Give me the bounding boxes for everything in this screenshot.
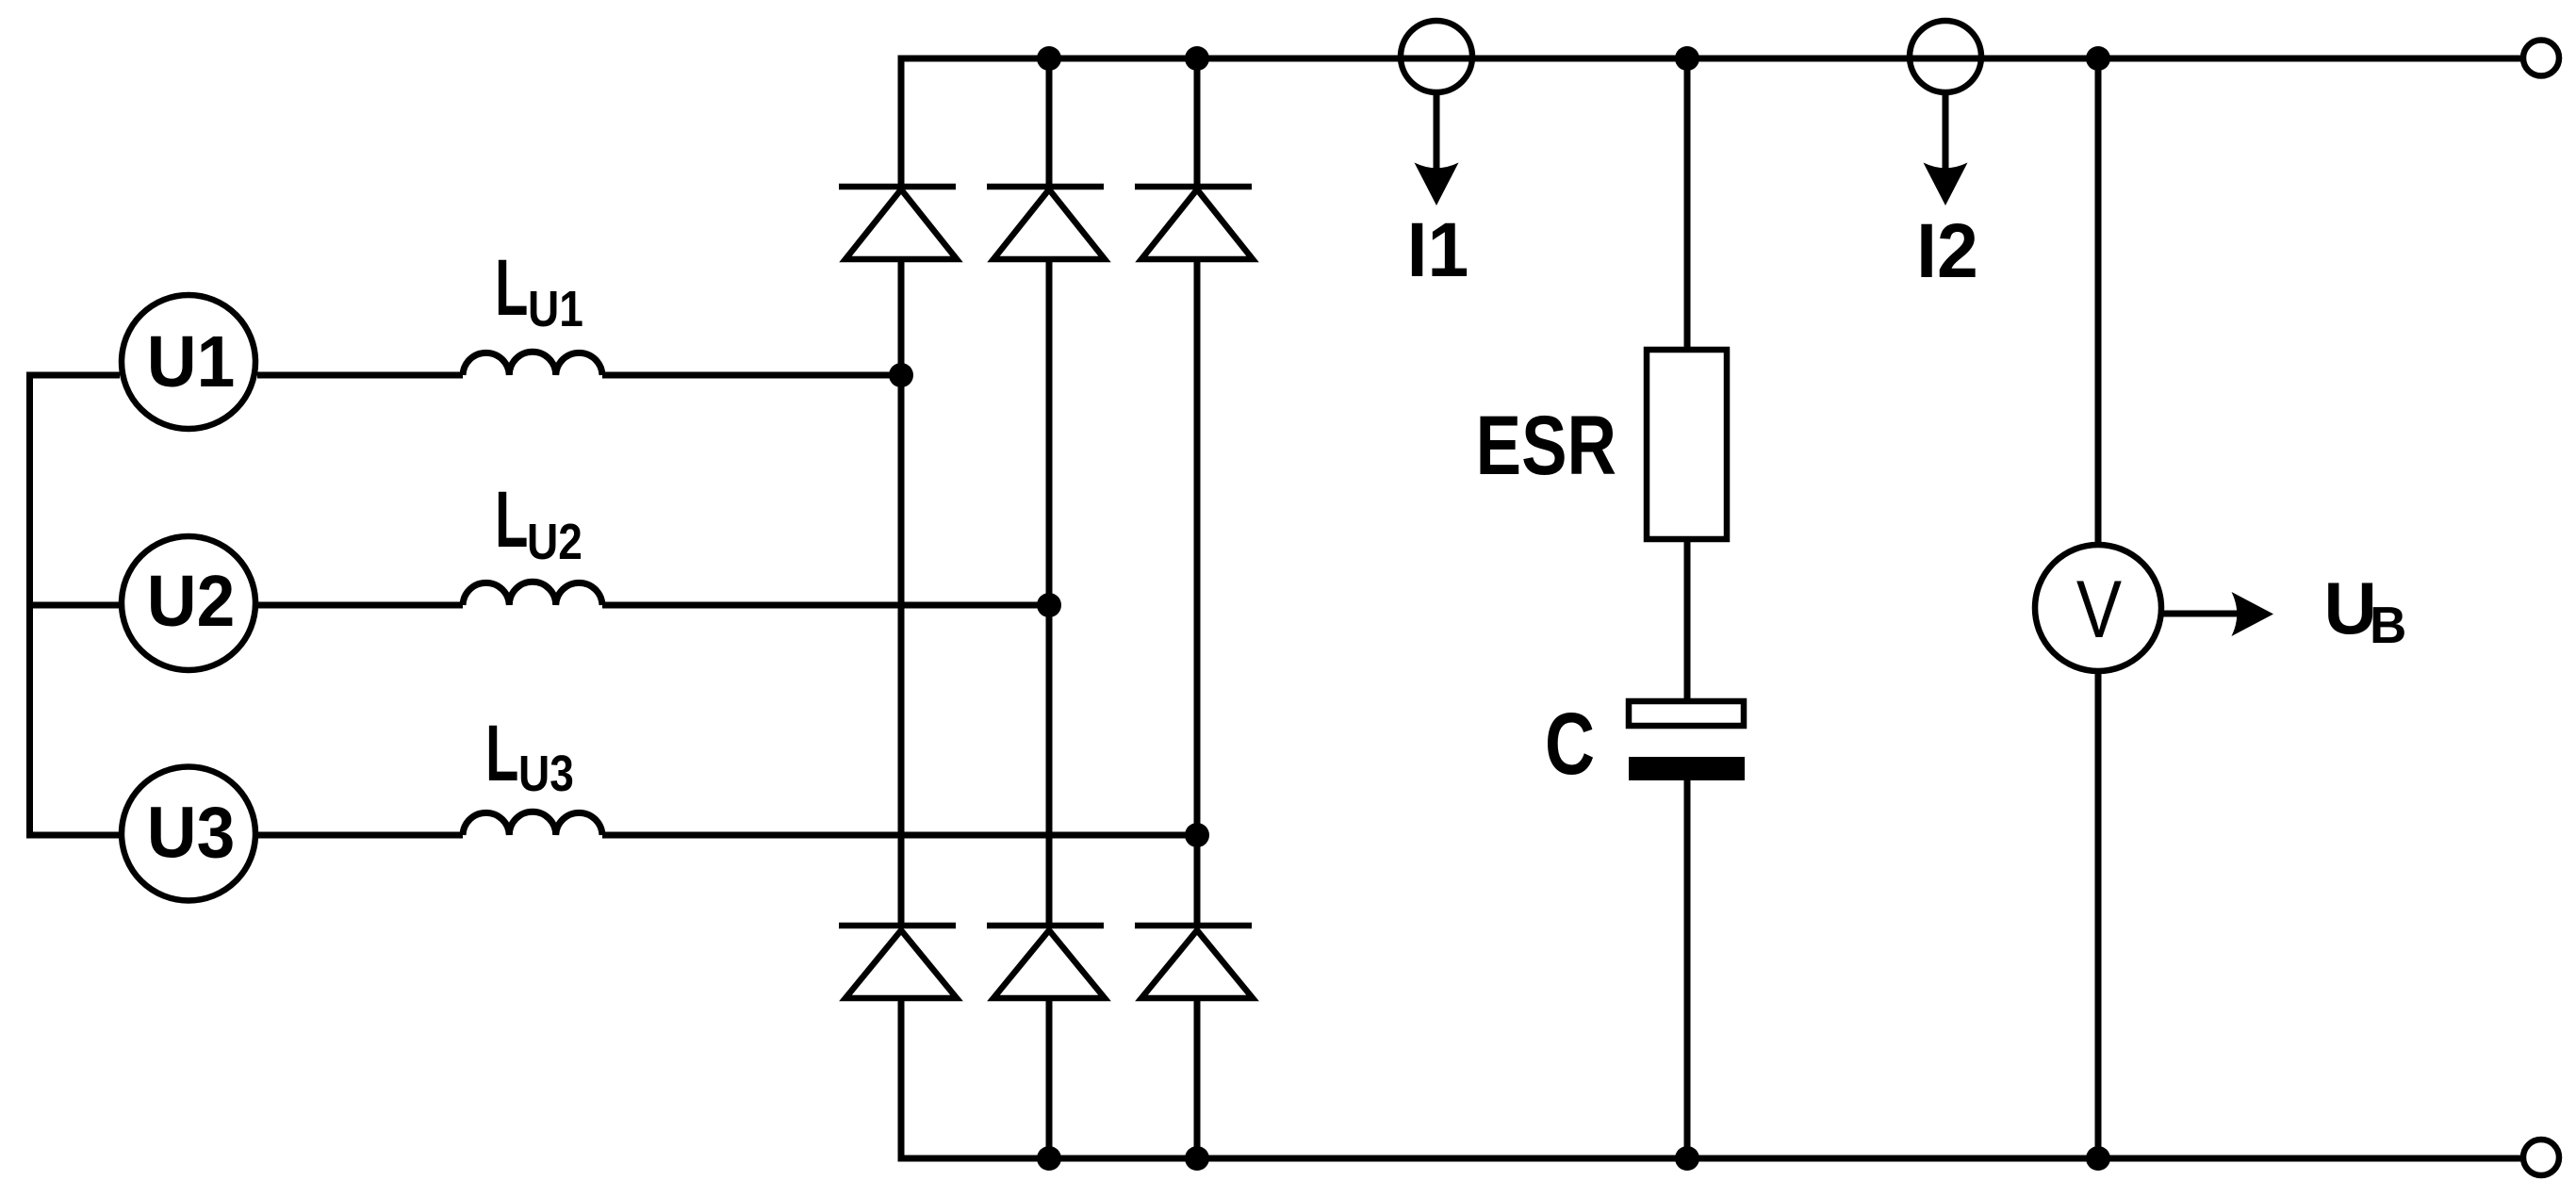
- arrow U_B: [2161, 592, 2273, 636]
- svg-text:V: V: [2076, 564, 2122, 654]
- svg-text:B: B: [2370, 596, 2406, 654]
- svg-text:L: L: [495, 477, 528, 565]
- svg-text:U1: U1: [528, 281, 583, 337]
- wire top bus: [901, 56, 2520, 62]
- diode D6 bottom: [1135, 926, 1253, 998]
- inductor L_U1: [463, 352, 602, 375]
- junction dot top col2: [1037, 46, 1061, 71]
- wire bridge column 2: [1046, 58, 1053, 1158]
- svg-text:U2: U2: [527, 514, 582, 570]
- svg-text:U3: U3: [147, 792, 235, 873]
- wire V branch top: [2095, 58, 2102, 545]
- ammeter I1 circle: [1401, 21, 1472, 92]
- junction dot U2 node: [1037, 593, 1061, 617]
- terminal bottom right: [2523, 1140, 2559, 1175]
- ammeter I2 circle: [1910, 21, 1981, 92]
- wire bridge column 3: [1194, 58, 1201, 1158]
- junction dot bottom col3: [1185, 1146, 1209, 1171]
- wire V branch bottom: [2095, 671, 2102, 1158]
- junction dot U3 node: [1185, 823, 1209, 847]
- diode D3 top: [1135, 187, 1253, 259]
- voltmeter V: [2035, 545, 2161, 671]
- inductor L_U3: [463, 812, 602, 835]
- source U2: [122, 536, 255, 670]
- inductor L_U2: [463, 582, 602, 605]
- source U3: [122, 767, 255, 901]
- wire ESR to capacitor: [1684, 539, 1691, 701]
- svg-text:I2: I2: [1916, 208, 1978, 295]
- svg-text:L: L: [495, 245, 528, 333]
- junction dot U1 node: [889, 363, 913, 387]
- svg-text:ESR: ESR: [1476, 399, 1616, 493]
- svg-text:L: L: [485, 711, 518, 798]
- wire bottom bus: [901, 1156, 2520, 1162]
- wire ESR branch top: [1684, 58, 1691, 350]
- svg-text:U1: U1: [147, 320, 235, 402]
- svg-text:U3: U3: [518, 746, 574, 802]
- wire phase U3 right: [258, 832, 463, 839]
- diode D4 bottom: [839, 926, 957, 998]
- svg-text:I1: I1: [1407, 207, 1469, 294]
- junction dot bottom col2: [1037, 1146, 1061, 1171]
- ammeter I1 arrow: [1415, 92, 1459, 205]
- wire U1 to bridge: [602, 372, 901, 379]
- junction dot top V: [2086, 46, 2110, 71]
- wire phase U1 right: [257, 372, 463, 379]
- ammeter I2 arrow: [1924, 92, 1968, 205]
- resistor ESR: [1647, 350, 1727, 539]
- wire phase U2 right: [258, 602, 463, 609]
- junction dot bottom V: [2086, 1146, 2110, 1171]
- svg-text:C: C: [1545, 695, 1595, 793]
- capacitor C bottom plate: [1629, 757, 1745, 780]
- terminal top right: [2523, 41, 2559, 76]
- junction dot top col3: [1185, 46, 1209, 71]
- diode D1 top: [839, 187, 957, 259]
- wire U2 to bridge: [602, 602, 1049, 609]
- junction dot top ESR: [1675, 46, 1699, 71]
- wire left bus: [26, 372, 33, 839]
- wire capacitor to bottom bus: [1684, 780, 1691, 1158]
- wire bridge column 1: [898, 56, 905, 1162]
- junction dot bottom C: [1675, 1146, 1699, 1171]
- wire phase U3 left: [26, 832, 120, 839]
- wire phase U2 left: [26, 602, 120, 609]
- svg-text:U2: U2: [147, 560, 235, 641]
- diode D5 bottom: [987, 926, 1105, 998]
- wire phase U1 left: [26, 372, 120, 379]
- capacitor C top plate: [1629, 701, 1744, 726]
- wire U3 to bridge: [602, 832, 1197, 839]
- diode D2 top: [987, 187, 1105, 259]
- source U1: [122, 295, 255, 429]
